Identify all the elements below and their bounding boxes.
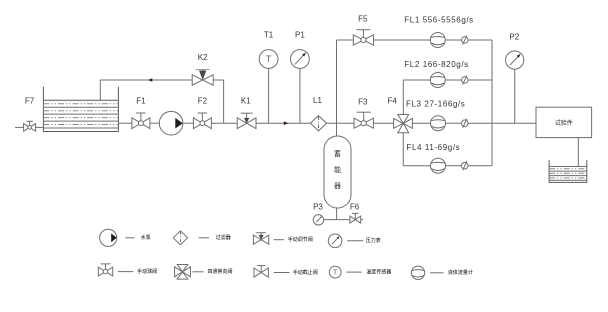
wire: specimen outlet xyxy=(577,138,579,167)
wire: FL4 branch xyxy=(403,133,492,166)
flow meter FL4 xyxy=(431,158,446,173)
valve F3 xyxy=(354,112,373,128)
test specimen box xyxy=(536,107,592,137)
svg-text:四通换向阀: 四通换向阀 xyxy=(208,268,233,275)
legend: manual stop valve symbol xyxy=(254,266,318,278)
wire: accumulator drain line xyxy=(323,208,363,220)
svg-text:过滤器: 过滤器 xyxy=(216,234,231,241)
svg-text:器: 器 xyxy=(334,182,341,190)
svg-text:能: 能 xyxy=(334,165,341,174)
legend: filter symbol xyxy=(173,231,231,245)
svg-text:K1: K1 xyxy=(241,96,251,105)
legend: liquid flow meter symbol xyxy=(411,266,473,279)
valve F5 xyxy=(353,30,373,46)
collection tank (right) xyxy=(549,160,587,182)
svg-text:F1: F1 xyxy=(136,97,146,106)
valve F6 (accumulator drain) xyxy=(350,213,361,223)
svg-text:FL4 11-69g/s: FL4 11-69g/s xyxy=(407,143,461,152)
quick coupling on FL4 xyxy=(462,161,469,170)
svg-text:T1: T1 xyxy=(264,31,274,40)
svg-text:K2: K2 xyxy=(198,53,208,62)
svg-text:手动调节阀: 手动调节阀 xyxy=(288,236,313,243)
svg-text:F7: F7 xyxy=(25,96,35,105)
flow meter FL3 (on main line) xyxy=(431,116,446,131)
svg-text:P3: P3 xyxy=(313,202,323,211)
legend: pressure gauge symbol xyxy=(328,234,380,248)
legend: manual ball valve symbol xyxy=(98,264,157,276)
wire: FL1 branch xyxy=(337,39,493,41)
valve K2 (bypass regulating) xyxy=(192,70,213,86)
legend: four-way valve symbol xyxy=(175,265,233,280)
svg-text:P1: P1 xyxy=(295,31,305,40)
valve F7 (tank drain) xyxy=(15,121,43,131)
temperature gauge T1 xyxy=(259,50,278,124)
svg-text:P2: P2 xyxy=(509,32,519,41)
svg-text:FL2 166-820g/s: FL2 166-820g/s xyxy=(404,60,468,69)
valve K1 (main regulating) xyxy=(237,113,256,128)
pressure gauge P1 xyxy=(291,50,310,124)
flow meter FL2 xyxy=(430,73,445,88)
svg-text:水泵: 水泵 xyxy=(141,234,151,241)
svg-text:T: T xyxy=(333,269,338,276)
legend: manual regulating valve symbol xyxy=(253,233,312,245)
svg-text:压力表: 压力表 xyxy=(366,237,381,244)
accumulator vessel xyxy=(324,136,351,208)
flow arrow on main line (points right) xyxy=(284,121,289,125)
legend: temperature sensor symbol xyxy=(329,266,391,278)
quick coupling on FL1 xyxy=(462,35,469,44)
valve F1 xyxy=(132,113,150,129)
svg-text:T: T xyxy=(266,54,272,65)
pressure gauge P2 xyxy=(506,51,524,123)
flow arrow on bypass (points left) xyxy=(148,78,153,82)
svg-text:F5: F5 xyxy=(358,15,368,24)
svg-text:F4: F4 xyxy=(388,97,398,106)
svg-text:L1: L1 xyxy=(313,96,322,105)
svg-text:手动球阀: 手动球阀 xyxy=(137,268,157,275)
wire: collector manifold xyxy=(491,40,493,166)
node: junction to FL1 riser / accumulator xyxy=(336,40,338,136)
legend: pump symbol xyxy=(100,229,151,246)
pressure gauge P3 xyxy=(313,215,323,225)
flow meter FL1 xyxy=(430,33,445,48)
quick coupling on FL2 xyxy=(462,75,469,84)
pump xyxy=(159,111,183,135)
svg-text:蓄: 蓄 xyxy=(334,149,341,158)
svg-text:温度传感器: 温度传感器 xyxy=(366,268,391,275)
svg-text:手动截止阀: 手动截止阀 xyxy=(293,269,318,276)
wire: bypass return to tank xyxy=(100,80,223,123)
wire: main line segments xyxy=(118,122,536,124)
quick coupling on FL3 xyxy=(462,119,469,128)
filter L1 xyxy=(310,116,326,131)
svg-text:F2: F2 xyxy=(198,97,208,106)
svg-text:FL3 27-166g/s: FL3 27-166g/s xyxy=(406,100,465,109)
svg-text:F6: F6 xyxy=(350,203,360,212)
svg-text:F3: F3 xyxy=(358,98,368,107)
svg-text:试验件: 试验件 xyxy=(555,119,573,127)
wire: FL2 branch xyxy=(403,80,492,115)
four-way valve F4 xyxy=(394,115,413,133)
valve F2 xyxy=(193,113,211,129)
svg-text:液体流量计: 液体流量计 xyxy=(448,269,473,276)
svg-text:FL1 556-5556g/s: FL1 556-5556g/s xyxy=(404,16,474,25)
reservoir tank (left) xyxy=(43,87,118,132)
